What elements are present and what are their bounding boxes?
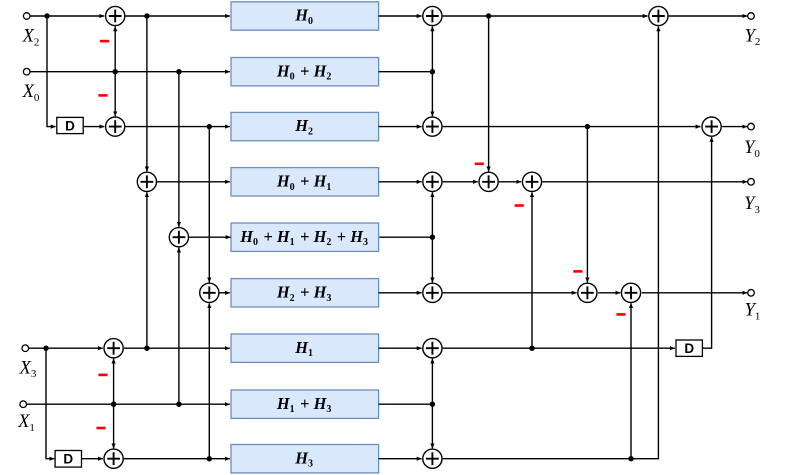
minus sign at adder A2 bbox=[98, 94, 107, 97]
wire adder B4 to adder C4a bbox=[443, 181, 478, 183]
wire adder A2 to block H2 bbox=[126, 126, 230, 128]
wire adder B7 to delay D3 bbox=[443, 347, 675, 349]
svg-text:H0 + H1 + H2 + H3: H0 + H1 + H2 + H3 bbox=[239, 227, 369, 248]
wire adder C4b to output Y3 bbox=[542, 181, 747, 183]
input terminal X0 bbox=[23, 68, 30, 75]
node X3 branch bbox=[43, 346, 48, 351]
wire block H3 to adder B9 bbox=[379, 458, 422, 460]
wire node N2 up to adder B1 bbox=[431, 26, 433, 71]
wire block H0+H1+H2+H3 to node N5 bbox=[379, 236, 432, 238]
wire block H2 to adder B3 bbox=[379, 126, 422, 128]
wire adder A4 to block H0+H1+H2+H3 bbox=[189, 236, 231, 238]
wire node R2 down to adder A4 bbox=[178, 72, 180, 227]
wire node N5 up to adder B4 bbox=[431, 192, 433, 237]
node N5 bbox=[430, 235, 435, 240]
wire block H0 to adder B1 bbox=[379, 15, 422, 17]
wire X3 to adder A6 bbox=[29, 347, 103, 349]
minus sign at adder C6b bbox=[616, 313, 625, 316]
wire node N5 down to adder B6 bbox=[431, 237, 433, 282]
wire adder A3 to block H0+H1 bbox=[157, 181, 230, 183]
filter block H2 bbox=[231, 112, 379, 140]
wire delay D1 to adder A2 bbox=[83, 126, 104, 128]
adder B1 bbox=[423, 6, 442, 25]
minus sign at adder A7 bbox=[96, 427, 105, 430]
node P3 bbox=[585, 124, 590, 129]
wire node N0a down to adder A2 bbox=[114, 72, 116, 117]
svg-text:X3: X3 bbox=[19, 358, 37, 380]
filter block H1 bbox=[231, 334, 379, 362]
wire node N1a up to adder A6 bbox=[113, 359, 115, 405]
node P1 bbox=[486, 13, 491, 18]
adder S3 bbox=[702, 117, 721, 136]
adder C6a bbox=[578, 283, 597, 302]
wire block H1 to adder B7 bbox=[379, 347, 422, 349]
wire node N8 up to adder B7 bbox=[431, 359, 433, 405]
wire node P3 down to adder C6a bbox=[586, 127, 588, 283]
input terminal X1 bbox=[20, 401, 27, 408]
delay D3 bbox=[676, 340, 702, 356]
wire adder C6a to adder C6b bbox=[598, 292, 620, 294]
wire X2 to adder A1 bbox=[30, 15, 105, 17]
filter block H0 bbox=[231, 2, 379, 30]
wire X2 branch down to delay D1 bbox=[47, 16, 56, 127]
wire X3 branch down to delay D2 bbox=[46, 348, 54, 459]
wire adder A5 to block H2+H3 bbox=[219, 292, 230, 294]
adder B9 bbox=[423, 449, 442, 468]
adder A1 bbox=[106, 6, 125, 25]
svg-text:H1 + H3: H1 + H3 bbox=[276, 394, 333, 415]
wire delay D3 up to adder S3 bbox=[702, 137, 711, 348]
wire node N1a down to adder A7 bbox=[113, 404, 115, 448]
wire node N8 down to adder B9 bbox=[431, 404, 433, 448]
wire X1 to block H1+H3 bbox=[27, 403, 230, 405]
minus sign at adder A6 bbox=[98, 374, 107, 377]
adder B7 bbox=[423, 339, 442, 358]
wire node N2 down to adder B3 bbox=[431, 72, 433, 117]
wire block H1+H3 to node N8 bbox=[379, 403, 433, 405]
svg-text:Y1: Y1 bbox=[745, 301, 761, 323]
svg-text:Y2: Y2 bbox=[745, 26, 761, 48]
node X2 branch bbox=[44, 13, 49, 18]
adder B3 bbox=[423, 117, 442, 136]
svg-text:X0: X0 bbox=[22, 82, 40, 104]
output terminal Y1 bbox=[748, 290, 755, 297]
node R9 bbox=[207, 456, 212, 461]
filter block H3 bbox=[231, 445, 379, 473]
node R1 bbox=[144, 13, 149, 18]
wire block H0+H2 to node N2 bbox=[379, 71, 433, 73]
wire node R7 up to adder A3 bbox=[146, 192, 148, 348]
node N1a bbox=[111, 402, 116, 407]
wire node R1 down to adder A3 bbox=[146, 16, 148, 171]
svg-text:D: D bbox=[684, 341, 694, 356]
delay D2 bbox=[55, 451, 81, 468]
wire adder A6 to block H1 bbox=[124, 347, 230, 349]
adder A7 bbox=[104, 449, 123, 468]
wire node R3 down to adder A5 bbox=[208, 127, 210, 283]
adder S1 bbox=[649, 6, 668, 25]
node N0a bbox=[113, 69, 118, 74]
wire block H0+H1 to adder B4 bbox=[379, 181, 422, 183]
wire block H2+H3 to adder B6 bbox=[379, 292, 422, 294]
node R8 bbox=[176, 402, 181, 407]
node R2 bbox=[176, 69, 181, 74]
wire node P7 up to adder C4b bbox=[531, 192, 533, 348]
adder C4b bbox=[522, 172, 541, 191]
adder A2 bbox=[106, 117, 125, 136]
wire adder B9 up to adder S1 bbox=[443, 26, 659, 458]
input terminal X2 bbox=[23, 13, 30, 20]
delay D1 bbox=[57, 117, 83, 133]
svg-text:H0 + H1: H0 + H1 bbox=[276, 171, 333, 192]
svg-text:D: D bbox=[65, 118, 75, 133]
svg-text:X2: X2 bbox=[22, 27, 40, 49]
adder A3 bbox=[137, 172, 156, 191]
node R7 bbox=[144, 346, 149, 351]
input terminal X3 bbox=[22, 345, 29, 352]
wire X0 to block H0+H2 bbox=[30, 71, 230, 73]
wire adder S3 to output Y0 bbox=[722, 126, 747, 128]
wire adder C4a to adder C4b bbox=[499, 181, 521, 183]
node R3 bbox=[207, 124, 212, 129]
output terminal Y3 bbox=[748, 179, 755, 186]
wire adder B3 to adder S3 bbox=[443, 126, 701, 128]
filter block H1+H3 bbox=[231, 390, 379, 418]
minus sign at adder A1 bbox=[100, 40, 109, 43]
output terminal Y0 bbox=[748, 123, 755, 130]
output terminal Y2 bbox=[748, 13, 755, 20]
svg-text:Y0: Y0 bbox=[744, 138, 760, 160]
adder A5 bbox=[200, 283, 219, 302]
minus sign at adder C6a bbox=[573, 270, 582, 273]
adder B6 bbox=[423, 283, 442, 302]
node P7 bbox=[529, 346, 534, 351]
wire adder B6 to adder C6a bbox=[443, 292, 577, 294]
filter block H0+H1 bbox=[231, 168, 379, 196]
adder A4 bbox=[169, 228, 188, 247]
wire adder S1 to output Y2 bbox=[669, 15, 748, 17]
adder C4a bbox=[479, 172, 498, 191]
wire node N0a up to adder A1 bbox=[114, 26, 116, 71]
svg-text:H0 + H2: H0 + H2 bbox=[276, 61, 333, 82]
wire node P9 up to adder C6b bbox=[630, 303, 632, 459]
svg-text:D: D bbox=[63, 452, 73, 467]
node N2 bbox=[430, 69, 435, 74]
node P9 bbox=[628, 456, 633, 461]
wire adder A7 to block H3 bbox=[124, 458, 230, 460]
minus sign at adder C4b bbox=[515, 204, 524, 207]
wire adder C6b to output Y1 bbox=[642, 292, 747, 294]
minus sign at adder C4a bbox=[475, 163, 484, 166]
svg-text:Y3: Y3 bbox=[744, 194, 760, 216]
adder A6 bbox=[104, 339, 123, 358]
adder B4 bbox=[423, 172, 442, 191]
wire adder B1 to adder S1 bbox=[443, 15, 648, 17]
filter block H2+H3 bbox=[231, 279, 379, 307]
wire node R9 up to adder A5 bbox=[208, 303, 210, 459]
filter block H0+H2 bbox=[231, 58, 379, 86]
wire adder A1 to block H0 bbox=[125, 15, 230, 17]
wire node R8 up to adder A4 bbox=[178, 248, 180, 405]
node N8 bbox=[430, 402, 435, 407]
adder C6b bbox=[621, 283, 640, 302]
svg-text:X1: X1 bbox=[17, 412, 35, 434]
filter block H0+H1+H2+H3 bbox=[231, 223, 379, 251]
svg-text:H2 + H3: H2 + H3 bbox=[276, 282, 333, 303]
wire node P1 down to adder C4a bbox=[488, 16, 490, 171]
wire delay D2 to adder A7 bbox=[82, 458, 103, 460]
